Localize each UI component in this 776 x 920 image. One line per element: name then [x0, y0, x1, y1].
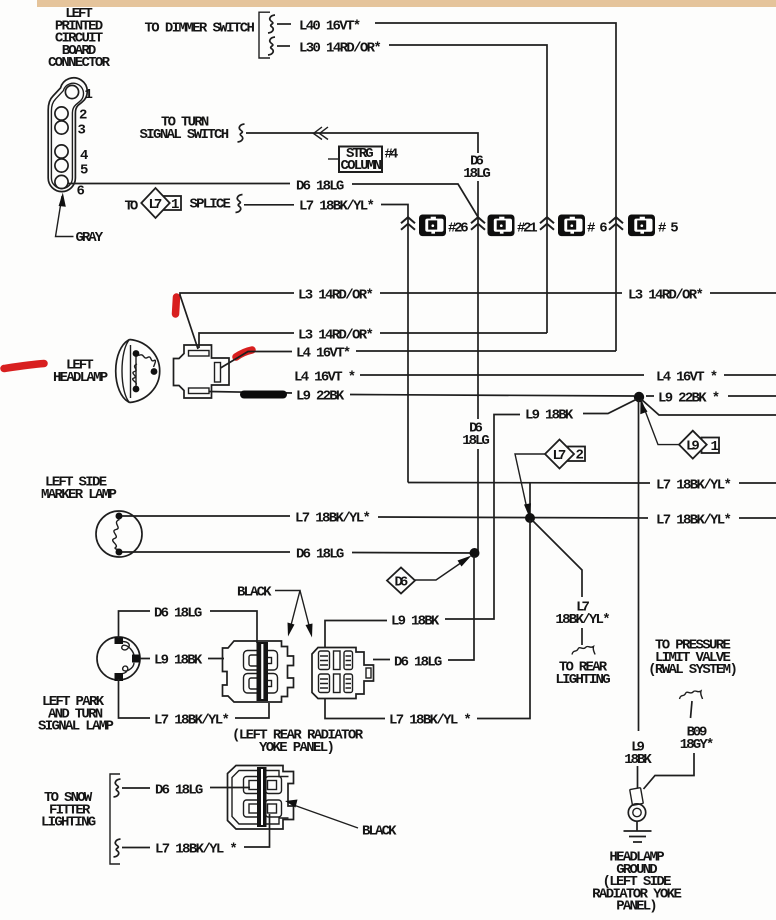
svg-text:SIGNAL LAMP: SIGNAL LAMP [38, 719, 114, 735]
wire L9 22BK from headlamp bottom slot [209, 392, 776, 397]
svg-text:#26: #26 [448, 221, 469, 237]
snow plow lighting connector [228, 766, 294, 830]
label L4 16VT * (left lower) [294, 370, 356, 386]
wire branch down from L7 row to junction [529, 483, 531, 516]
splice symbol L7 2 with leader arrow to junction [515, 440, 585, 518]
svg-text:BLACK: BLACK [237, 585, 272, 601]
label BLACK (lower) with leader arrow [285, 800, 397, 840]
svg-text:SIGNAL SWITCH: SIGNAL SWITCH [140, 127, 230, 143]
svg-text:2: 2 [79, 108, 87, 124]
svg-text:1: 1 [171, 197, 179, 213]
svg-text:L3 14RD/OR*: L3 14RD/OR* [298, 288, 374, 304]
label D6 18LG (marker lamp) [296, 547, 344, 563]
label L7 18BK/YL* (right lower) [656, 513, 732, 529]
label L9 22BK (left) [296, 389, 345, 405]
squiggle to pressure limit valve [680, 691, 703, 699]
title text: LEFT PRINTED CIRCUIT BOARD CONNECTOR [48, 6, 111, 71]
headlamp ground symbol [624, 821, 652, 842]
wire D6 18LG from park lamp top to rear connector bar [119, 611, 258, 643]
chevron on #5 column [609, 217, 623, 230]
label L9 22BK * (right) [658, 391, 720, 407]
label (LEFT REAR RADIATOR YOKE PANEL) [232, 728, 364, 756]
label D6 18LG (rear connector) [394, 655, 442, 671]
bulkhead connector #26 [419, 215, 469, 237]
wire diagonal from L7 node to rear lighting [532, 520, 582, 597]
chevron on #6 column [540, 217, 554, 230]
label L30 14RD/OR* [299, 41, 382, 57]
svg-text:# 5: # 5 [658, 221, 679, 237]
pin 6 [55, 175, 85, 199]
svg-text:D6 18LG: D6 18LG [155, 783, 203, 799]
label BLACK (upper) with fork arrows [237, 585, 313, 638]
svg-text:MARKER LAMP: MARKER LAMP [41, 487, 117, 503]
splice squiggle terminator [236, 195, 243, 213]
label LEFT SIDE MARKER LAMP [41, 475, 117, 503]
wire L7 18BK/YL* from park lamp bottom [119, 679, 270, 718]
wire D6 vertical from turn signal down to D6 junction [477, 181, 479, 553]
junction dot L9 ground node [634, 392, 644, 402]
label TO TURN SIGNAL SWITCH [140, 115, 230, 143]
label LEFT HEADLAMP [53, 358, 108, 387]
svg-text:L4 16VT *: L4 16VT * [294, 370, 356, 386]
wire to turn signal switch (D6 circuit) [246, 133, 478, 153]
ground terminal crimp and ring [628, 788, 645, 822]
svg-text:5: 5 [80, 163, 88, 179]
svg-text:#21: #21 [517, 221, 538, 237]
pin 4 [55, 145, 89, 164]
svg-text:L30 14RD/OR*: L30 14RD/OR* [299, 41, 382, 57]
svg-text:18BK/YL*: 18BK/YL* [555, 612, 610, 628]
chevron on #26 column [401, 217, 415, 230]
svg-text:L3 14RD/OR*: L3 14RD/OR* [628, 288, 704, 304]
junction dot D6 node [470, 548, 480, 558]
splice symbol L9 1 with leader to node [640, 400, 719, 459]
headlamp bulb symbol [116, 340, 160, 403]
bulkhead connector #5 [628, 215, 679, 237]
svg-text:L9 18BK: L9 18BK [525, 408, 574, 424]
wire stub L40 at bracket [268, 15, 291, 33]
wire D6 18LG from rear connector tab to D6 node [373, 556, 474, 660]
squiggle L7 snow stub [114, 839, 151, 857]
svg-text:(RWAL SYSTEM): (RWAL SYSTEM) [648, 662, 738, 678]
label TO DIMMER SWITCH [145, 21, 255, 37]
label TO SNOW FITTER LIGHTING [41, 790, 96, 831]
wire from L9 node to right edge (lower) [641, 399, 776, 415]
svg-text:L9 18BK: L9 18BK [391, 614, 440, 630]
headlamp connector body [174, 345, 230, 398]
wire L9 into ground terminal [637, 766, 639, 788]
junction dot L7 node [525, 513, 535, 523]
label L7 18BK/YL* (splice wire) [299, 199, 375, 215]
label L3 14RD/OR* (left, lower) [298, 328, 374, 344]
svg-text:CONNECTOR: CONNECTOR [48, 55, 111, 71]
label LEFT PARK AND TURN SIGNAL LAMP [38, 694, 114, 735]
wire L7 18BK/YL* to connector #26 column [381, 205, 408, 483]
wire L4 16VT* lower to right edge [360, 374, 776, 376]
marker lamp symbol [96, 511, 142, 557]
label TO PRESSURE LIMIT VALVE (RWAL SYSTEM) [648, 638, 738, 679]
wire D6 18LG into snow connector [210, 787, 250, 789]
dimmer switch bracket [259, 12, 270, 58]
wire L4 16VT* upper from headlamp right slot to #5 column [221, 351, 617, 368]
label L3 14RD/OR* (left, upper) [298, 288, 374, 304]
wire/leader L9 18BK upper into node [497, 400, 636, 415]
svg-text:PANEL): PANEL) [616, 899, 657, 915]
svg-text:COLUMN: COLUMN [341, 158, 382, 174]
svg-text:L9 18BK: L9 18BK [154, 653, 203, 669]
label L4 16VT * (right) [656, 370, 718, 386]
label L3 14RD/OR* (right) [628, 288, 704, 304]
park and turn signal lamp symbol [97, 637, 140, 682]
svg-text:18LG: 18LG [463, 166, 491, 182]
svg-text:# 6: # 6 [587, 221, 608, 237]
svg-text:1: 1 [711, 439, 719, 455]
wire L40 16VT* to connector #5 column [375, 23, 616, 351]
label L9 18BK (ground wire) [624, 740, 652, 768]
label L9 18BK (mid) [391, 614, 440, 630]
svg-text:L7 18BK/YL*: L7 18BK/YL* [154, 713, 230, 729]
wire D6 18LG from marker lamp to D6 junction [122, 552, 474, 553]
svg-text:6: 6 [77, 184, 85, 200]
svg-text:L4 16VT*: L4 16VT* [296, 346, 351, 362]
wire L7 18BK/YL* from splice [244, 204, 294, 206]
label TO REAR LIGHTING [555, 660, 610, 688]
svg-text:L7 18BK/YL*: L7 18BK/YL* [295, 511, 371, 527]
wire L3 14RD/OR* upper from headlamp connector [180, 293, 776, 349]
label B09 18GY* [680, 725, 715, 753]
label L7 18BK/YL * (rear connector wire) [389, 713, 472, 729]
wire L7 from snow connector [244, 814, 270, 847]
label L9 18BK (park lamp) [154, 653, 203, 669]
label D6 18LG (snow) [155, 783, 203, 799]
svg-text:#4: #4 [385, 147, 399, 163]
label D6 18LG (pin 6 wire) [296, 179, 344, 195]
svg-text:18GY*: 18GY* [680, 737, 715, 753]
svg-text:D6: D6 [395, 574, 409, 590]
svg-text:L9 22BK *: L9 22BK * [658, 391, 720, 407]
label HEADLAMP GROUND (LEFT SIDE RADIATOR YOKE PANEL) [592, 850, 682, 915]
red pen mark vertical (annotation) [176, 297, 177, 314]
svg-text:18BK: 18BK [624, 752, 652, 768]
svg-text:BLACK: BLACK [362, 824, 397, 840]
squiggle D6 snow stub [114, 779, 151, 797]
svg-text:L7: L7 [149, 197, 163, 213]
wire label D6 18LG on vertical (upper) [463, 154, 491, 182]
svg-text:D6 18LG: D6 18LG [296, 179, 344, 195]
svg-text:1: 1 [85, 87, 93, 103]
splice symbol D6 with leader arrow to junction [387, 556, 472, 594]
label L7 18BK/YL* (marker lamp) [295, 511, 371, 527]
svg-text:2: 2 [576, 448, 584, 464]
svg-text:L7: L7 [553, 448, 567, 464]
rear radiator yoke connector (right half) [312, 648, 374, 699]
connector J1 left printed circuit board connector body [48, 78, 87, 192]
svg-text:L7 18BK/YL*: L7 18BK/YL* [656, 513, 732, 529]
label L7 18BK/YL* (right upper) [656, 478, 732, 494]
svg-text:L40 16VT*: L40 16VT* [299, 19, 361, 35]
wire L9 18BK riser from park lamp circuit to upper L9 label [445, 415, 497, 620]
rear radiator yoke connector (left half) [223, 641, 294, 702]
svg-text:TO DIMMER SWITCH: TO DIMMER SWITCH [145, 21, 255, 37]
wire break chevrons on turn signal wire [314, 127, 329, 140]
label L4 16VT* (left upper) [296, 346, 351, 362]
chevron on #21 column [471, 217, 485, 230]
wire B09 18GY* from pressure valve to ground [644, 701, 695, 789]
svg-text:L7 18BK/YL *: L7 18BK/YL * [389, 713, 472, 729]
svg-text:D6 18LG: D6 18LG [154, 606, 202, 622]
label L7 18BK/YL* (park lamp) [154, 713, 230, 729]
pin 1 [65, 85, 93, 103]
svg-text:SPLICE: SPLICE [190, 197, 231, 213]
black pen mark (annotation) [244, 391, 283, 399]
wire L9 18BK from park lamp right terminal [140, 658, 224, 660]
svg-text:L9: L9 [686, 438, 700, 454]
wire stub L30 at bracket [268, 37, 290, 55]
label L40 16VT* [299, 19, 361, 35]
red pen mark horizontal left (annotation) [4, 364, 44, 369]
wire D6 18LG from pin 6 [68, 184, 478, 218]
STRG COLUMN box #4 [328, 146, 398, 174]
label TO ... SPLICE [125, 199, 139, 215]
svg-text:L9 22BK: L9 22BK [296, 389, 345, 405]
svg-text:GRAY: GRAY [76, 230, 104, 246]
bulkhead connector #21 [488, 215, 538, 237]
splice symbol L7 1 [141, 188, 181, 218]
wire L9 18BK from rear connector top [325, 621, 387, 648]
svg-text:LIGHTING: LIGHTING [555, 672, 610, 688]
wire label D6 18LG on vertical (lower) [462, 421, 490, 449]
red pen mark on L4 wire (annotation) [236, 350, 252, 357]
svg-text:3: 3 [78, 123, 86, 139]
wire L3 14RD/OR* lower to #6 column [199, 333, 547, 348]
svg-text:L7 18BK/YL*: L7 18BK/YL* [656, 478, 732, 494]
wire L7 18BK/YL riser from rear connector bottom to L7 node [325, 520, 530, 719]
svg-text:HEADLAMP: HEADLAMP [53, 370, 108, 386]
svg-text:YOKE PANEL): YOKE PANEL) [259, 740, 335, 756]
label D6 18LG (park lamp) [154, 606, 202, 622]
turn signal squiggle terminator [238, 124, 245, 142]
label L7 18BK/YL* (to rear lighting) [555, 600, 610, 628]
svg-text:L3 14RD/OR*: L3 14RD/OR* [298, 328, 374, 344]
bulkhead connector #6 [558, 215, 608, 237]
pin 2 [55, 107, 88, 124]
snow lighting bracket [110, 774, 120, 864]
pin 3 [55, 121, 86, 139]
svg-text:D6 18LG: D6 18LG [394, 655, 442, 671]
wire L7 18BK/YL* row from #26 column to right edge [408, 482, 776, 485]
pin 5 [55, 159, 89, 179]
svg-text:L7 18BK/YL *: L7 18BK/YL * [155, 842, 238, 858]
svg-text:D6 18LG: D6 18LG [296, 547, 344, 563]
svg-text:L4 16VT *: L4 16VT * [656, 370, 718, 386]
label SPLICE [190, 197, 231, 213]
wire L30 14RD/OR* to connector #6 column [389, 45, 547, 333]
label L9 18BK (upper) [525, 408, 574, 424]
svg-text:TO: TO [125, 199, 139, 215]
svg-text:L7 18BK/YL*: L7 18BK/YL* [299, 199, 375, 215]
svg-text:18LG: 18LG [462, 433, 490, 449]
wire L9 vertical from node down to headlamp ground [638, 400, 640, 731]
scan edge tan bar [37, 0, 776, 7]
wire L7 18BK/YL* from marker lamp to junction [122, 516, 776, 518]
wire stub to rear lighting with squiggle [572, 628, 595, 655]
label L7 18BK/YL * (snow) [155, 842, 238, 858]
svg-text:LIGHTING: LIGHTING [41, 815, 96, 831]
GRAY label with leader arrow to connector [56, 193, 104, 247]
